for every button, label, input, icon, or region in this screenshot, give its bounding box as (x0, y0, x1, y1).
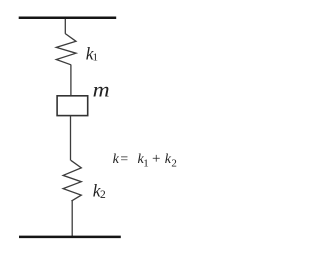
svg-text:1: 1 (143, 158, 149, 170)
wire top connector (64, 19, 66, 34)
top wall (19, 16, 117, 19)
spring k1 (56, 34, 76, 65)
svg-text:2: 2 (171, 158, 177, 170)
svg-text:2: 2 (100, 189, 106, 201)
bottom wall (19, 236, 121, 239)
wire mass to k2 (70, 116, 72, 161)
svg-text:k: k (113, 152, 120, 167)
svg-text:1: 1 (93, 51, 99, 63)
svg-text:+: + (152, 151, 160, 167)
wire k2 to bottom wall (71, 201, 73, 237)
mass box m (57, 96, 88, 116)
svg-text:m: m (93, 78, 110, 102)
spring k2 (63, 160, 81, 201)
wire k1 to mass (70, 65, 72, 96)
svg-text:=: = (120, 152, 128, 167)
